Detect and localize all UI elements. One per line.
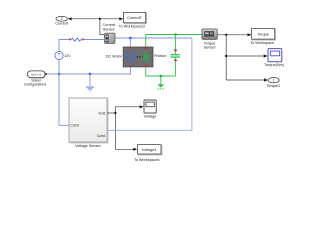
wire electrical: to voltage sensor Com2 bbox=[59, 124, 69, 126]
wire mechanical down to friction bbox=[175, 35, 177, 50]
dashed shaft dots bbox=[137, 56, 138, 57]
svg-text:To Workspace: To Workspace bbox=[250, 41, 274, 45]
svg-text:Torque1: Torque1 bbox=[267, 84, 281, 88]
svg-text:12V: 12V bbox=[64, 54, 71, 58]
solver configuration block bbox=[27, 71, 47, 78]
svg-text:Out1: Out1 bbox=[98, 111, 105, 115]
wire signal to outport with arrowhead bbox=[68, 17, 100, 20]
wire electrical Com1 long run bbox=[107, 38, 192, 130]
scope Torque(Nm) bbox=[268, 49, 282, 62]
junction signal torque B bbox=[225, 34, 227, 36]
electrical reference ground bbox=[85, 74, 95, 92]
wire electrical: source bottom down to Com2 level bbox=[58, 60, 60, 126]
svg-text:f(x) = 0: f(x) = 0 bbox=[31, 73, 41, 77]
svg-text:Voltage: Voltage bbox=[144, 114, 157, 118]
svg-text:Current: Current bbox=[55, 22, 69, 26]
junction mechanical reference tap bbox=[160, 75, 163, 78]
wire signal to outport Torque1 bbox=[226, 78, 268, 81]
voltage sensor subsystem block bbox=[69, 98, 108, 143]
voltage source V1 (12V) bbox=[55, 51, 63, 59]
friction element bbox=[171, 49, 180, 61]
label Torque Sensor bbox=[204, 41, 217, 49]
svg-text:Voltage1: Voltage1 bbox=[142, 148, 157, 152]
wire signal to Voltage1 bbox=[115, 113, 137, 151]
resistor port mark left bbox=[69, 39, 71, 41]
wire signal down from junction B bbox=[225, 35, 227, 80]
svg-text:To Workspace3: To Workspace3 bbox=[119, 25, 145, 29]
svg-text:DC Motor: DC Motor bbox=[106, 54, 123, 58]
svg-text:Sensor: Sensor bbox=[204, 46, 217, 50]
svg-text:1: 1 bbox=[273, 79, 275, 83]
resistor (zigzag) bbox=[71, 38, 82, 41]
current sensor block bbox=[105, 33, 116, 43]
svg-text:Com2: Com2 bbox=[70, 124, 79, 128]
svg-text:Friction: Friction bbox=[154, 54, 166, 58]
wire signal Out1 bbox=[107, 112, 115, 114]
wire mechanical motor C down and right bbox=[146, 67, 176, 76]
junction signal A bbox=[99, 18, 101, 20]
label Solver Configuration1 bbox=[24, 79, 47, 87]
wire electrical bus y=74 solver to motor bbox=[47, 67, 131, 74]
wire electrical current sensor to corner x=192 bbox=[115, 37, 192, 39]
wire signal to CurrentT with arrowhead bbox=[100, 17, 123, 20]
junction signal Out1 bbox=[114, 112, 116, 114]
wire signal to Voltage scope bbox=[115, 105, 143, 113]
junction electrical at source/bus bbox=[58, 73, 60, 75]
junction mechanical friction tap bbox=[174, 33, 177, 36]
junction electrical at ground bbox=[89, 73, 91, 75]
torque sensor block bbox=[202, 29, 217, 39]
svg-text:Voltage Sensor: Voltage Sensor bbox=[75, 144, 101, 148]
wire signal junction A down to current sensor bbox=[100, 19, 105, 35]
wire mechanical motor R up and to torque sensor bbox=[146, 35, 202, 48]
junction electrical motor plus bbox=[129, 37, 132, 40]
svg-text:Torque(Nm): Torque(Nm) bbox=[264, 63, 285, 67]
label Current Sensor bbox=[102, 23, 116, 31]
svg-text:Com1: Com1 bbox=[97, 134, 106, 138]
svg-text:To Workspace1: To Workspace1 bbox=[134, 158, 160, 162]
wire electrical drop to motor bbox=[129, 38, 131, 47]
wire electrical: source top to resistor bbox=[59, 40, 70, 52]
inertia icon (green) bbox=[145, 51, 147, 63]
wire electrical: resistor to current sensor bbox=[84, 39, 105, 41]
resistor port mark right bbox=[82, 39, 84, 41]
outport Torque1 (port 1 oval) bbox=[268, 78, 279, 83]
wire signal to Torque scope bbox=[226, 54, 268, 57]
svg-text:Configuration1: Configuration1 bbox=[24, 83, 47, 87]
wire mechanical friction bottom to bus bbox=[175, 61, 177, 76]
motor rotor icon (blue gear) bbox=[126, 52, 135, 61]
svg-text:CurrentT: CurrentT bbox=[127, 16, 143, 20]
svg-text:Torque: Torque bbox=[257, 33, 269, 37]
dc motor block bbox=[123, 47, 153, 67]
port marks red bbox=[129, 47, 131, 49]
wire signal torque sensor out bbox=[217, 33, 251, 36]
block Voltage1 (To Workspace) bbox=[138, 145, 162, 155]
scope Voltage bbox=[144, 100, 156, 113]
junction signal torque C bbox=[225, 55, 227, 57]
block Torque (To Workspace) bbox=[252, 29, 276, 41]
svg-text:Sensor: Sensor bbox=[103, 27, 116, 31]
mechanical rotational reference bbox=[157, 76, 164, 90]
block CurrentT (To Workspace) bbox=[124, 12, 147, 23]
outport Current (port 2 oval) bbox=[56, 16, 67, 21]
svg-text:2: 2 bbox=[61, 17, 63, 21]
